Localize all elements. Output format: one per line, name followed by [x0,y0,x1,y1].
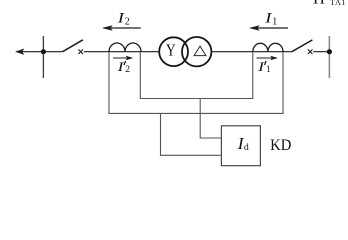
transformer T secondary circle (delta winding) [182,37,211,66]
arrow for I'1 secondary current (points right) [257,56,278,60]
wire: breaker QF2 to transformer [84,51,160,53]
wire: left feeder with load arrow [16,49,63,54]
wire: transformer to TA1 [212,51,292,53]
wire: inner secondary loop (TA2 inner lead, upper conductor, TA1 inner lead) [140,52,253,99]
svg-text:2: 2 [125,65,130,75]
label I'2 prime mark [124,61,125,65]
svg-text:H: H [313,0,325,8]
svg-text:Y: Y [166,41,176,60]
arrow for I2 (points left) [103,26,141,31]
breaker QF1 fixed contact x [308,49,313,54]
wire: relay tap from inner loop [200,99,221,139]
current transformer TA2 winding humps [109,43,141,52]
junction node on left bus [41,49,46,54]
breaker QF2 blade [63,40,83,52]
svg-text:TA1: TA1 [330,0,346,7]
svg-text:1: 1 [272,16,277,27]
breaker QF2 fixed contact x [78,49,83,54]
arrow for I'2 secondary current (points right) [113,56,133,60]
transformer T primary circle (Y winding) [159,37,188,66]
svg-text:KD: KD [270,137,291,154]
wire: relay tap from outer loop [161,113,222,155]
current transformer TA1 winding humps [253,43,283,51]
breaker QF1 blade [292,40,313,52]
bus bar right [328,36,330,78]
relay KD box [221,126,260,166]
arrow for I1 (points left) [250,26,288,31]
svg-text:I: I [257,60,265,74]
svg-text:I: I [116,60,124,74]
svg-text:d: d [244,142,249,153]
svg-text:2: 2 [125,16,130,27]
svg-text:1: 1 [266,65,271,75]
bus bar left [42,36,44,78]
delta symbol inside right circle [194,46,206,56]
label I'1 prime mark [265,61,266,65]
wire: outer secondary loop (TA2 outer lead, bottom conductor, TA1 outer lead) [109,52,283,114]
wire: breaker QF1 to right bus [313,51,329,53]
junction node on right bus [327,49,332,54]
